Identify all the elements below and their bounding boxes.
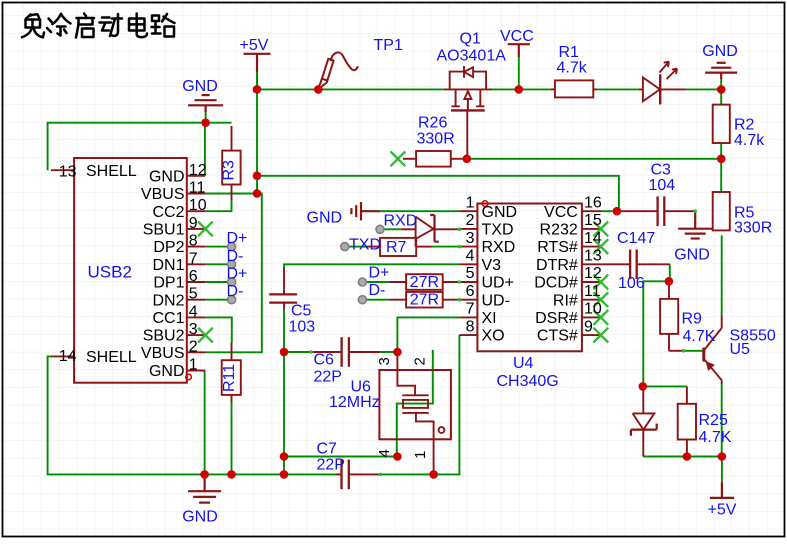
wire R2 bottom	[720, 143, 722, 159]
svg-text:6: 6	[466, 283, 475, 300]
wire GND top-left stem green part	[205, 112, 207, 123]
wire R7 right to pin3	[432, 246, 460, 248]
svg-text:4.7K: 4.7K	[699, 429, 732, 446]
power VCC	[508, 44, 530, 57]
svg-text:RXD: RXD	[384, 213, 418, 230]
ground GND top-right	[705, 63, 737, 79]
resistor R3	[231, 126, 233, 151]
svg-text:XO: XO	[482, 328, 505, 345]
wire CC1 pin4 to R11	[205, 317, 232, 342]
svg-text:4.7K: 4.7K	[683, 328, 716, 345]
svg-text:RTS#: RTS#	[537, 239, 578, 256]
ground GND sideways (U4 pin1)	[351, 202, 380, 220]
wire GND bottom stem green part	[204, 474, 206, 479]
port dots D+/D-/RXD/TXD	[228, 243, 236, 251]
title 免冷启动电路	[22, 14, 175, 38]
resistor R5	[713, 192, 730, 230]
wire Q1 drain to VCC node to R1	[492, 88, 551, 90]
U4 pin1 marker circle	[482, 201, 488, 207]
svg-text:2: 2	[466, 212, 475, 229]
wire GND top-right stem green part	[720, 79, 722, 89]
svg-text:D-: D-	[227, 248, 244, 265]
svg-text:10: 10	[189, 197, 207, 214]
svg-text:12: 12	[189, 162, 207, 179]
wire LED to GND node	[686, 88, 721, 90]
USB2 pin1 marker circle	[186, 374, 192, 380]
ground GND near C3	[678, 211, 712, 238]
svg-text:10: 10	[584, 301, 602, 318]
capacitor C6	[311, 351, 342, 353]
power +5V bottom	[710, 482, 734, 498]
wire diode node to R25 top	[643, 385, 687, 387]
svg-text:4: 4	[189, 303, 198, 320]
wire +5V top stem green part	[256, 72, 258, 89]
wire TXD port stub	[349, 246, 365, 248]
no-connect X RI# pin11	[593, 292, 608, 307]
svg-text:DP2: DP2	[153, 239, 184, 256]
svg-text:VBUS: VBUS	[141, 345, 185, 362]
wire RXD port stub	[384, 228, 402, 230]
wire D- port stub	[366, 299, 388, 301]
svg-text:UD+: UD+	[482, 275, 514, 292]
wire crystal pin2 case	[397, 350, 433, 457]
no-connect X DSR# pin10	[593, 310, 608, 325]
svg-text:103: 103	[289, 319, 316, 336]
svg-text:R2: R2	[734, 117, 755, 134]
svg-text:1: 1	[466, 194, 475, 211]
svg-text:C147: C147	[617, 230, 655, 247]
svg-text:11: 11	[584, 283, 601, 300]
svg-text:+5V: +5V	[708, 502, 737, 519]
svg-text:16: 16	[584, 194, 602, 211]
wire C6 right to XI node	[380, 351, 397, 353]
zener diode D3	[631, 386, 657, 456]
svg-text:3: 3	[466, 230, 475, 247]
svg-text:7: 7	[189, 250, 198, 267]
wire U4 pin16 to VCC node	[602, 210, 617, 212]
svg-text:D-: D-	[227, 283, 244, 300]
svg-text:GND: GND	[674, 247, 710, 264]
svg-text:GND: GND	[149, 168, 185, 185]
resistor R11	[231, 343, 233, 361]
wire R1 to LED	[597, 88, 639, 90]
no-connect X RTS# pin14	[593, 239, 608, 254]
pin-end green dots	[309, 209, 697, 476]
IC U4 CH340G body	[477, 204, 582, 352]
svg-text:22P: 22P	[314, 369, 342, 386]
svg-text:5: 5	[189, 286, 198, 303]
wire C6 left	[284, 351, 311, 353]
svg-text:R26: R26	[418, 115, 447, 132]
svg-text:8: 8	[189, 233, 198, 250]
wire R9 base row green part	[684, 350, 703, 352]
resistor R1	[551, 88, 555, 90]
no-connect X CTS# pin9	[593, 328, 608, 343]
svg-text:SBU2: SBU2	[143, 328, 185, 345]
resistor R2	[713, 105, 730, 143]
svg-text:R1: R1	[559, 44, 580, 61]
wire R26 node to R2/R5 node	[467, 158, 721, 160]
crystal U6 12MHz	[379, 370, 451, 439]
svg-text:DSR#: DSR#	[535, 310, 578, 327]
no-connect X DCD# pin12	[593, 275, 608, 290]
wire XO pin8 down and along bottom	[380, 335, 459, 474]
resistor R7	[365, 246, 380, 248]
svg-text:3: 3	[376, 357, 393, 365]
svg-text:V3: V3	[482, 257, 502, 274]
svg-text:D-: D-	[369, 282, 386, 299]
svg-text:SBU1: SBU1	[143, 222, 185, 239]
resistor R26	[403, 158, 416, 160]
wire R11 bottom down	[231, 401, 233, 474]
svg-text:14: 14	[584, 230, 602, 247]
wire USB GND pin1 down	[204, 371, 206, 475]
resistor R8 27R upper	[389, 281, 406, 283]
svg-text:DP1: DP1	[153, 275, 184, 292]
svg-text:TP1: TP1	[374, 37, 403, 54]
node junction dots	[253, 85, 262, 94]
wire C147 down to R9 node	[669, 264, 671, 281]
resistor R10 27R lower	[389, 299, 406, 301]
svg-text:27R: 27R	[410, 292, 439, 309]
svg-text:GND: GND	[182, 509, 218, 526]
test point TP1	[319, 52, 358, 88]
svg-text:R25: R25	[699, 412, 728, 429]
resistor R9	[668, 281, 670, 299]
svg-text:UD-: UD-	[482, 292, 510, 309]
connector USB2 body	[74, 158, 187, 383]
svg-text:VCC: VCC	[500, 28, 534, 45]
capacitor C7	[336, 473, 342, 475]
svg-text:R9: R9	[682, 311, 703, 328]
svg-text:CC1: CC1	[152, 310, 184, 327]
svg-text:6: 6	[189, 268, 198, 285]
capacitor C147	[602, 263, 631, 265]
svg-text:GND: GND	[482, 204, 518, 221]
svg-text:14: 14	[59, 348, 77, 365]
LED D2	[639, 62, 686, 105]
wire DP2 stub	[205, 246, 228, 248]
wire DN2 stub	[205, 299, 228, 301]
svg-text:Q1: Q1	[460, 31, 481, 48]
wire GND symbol to U4 pin1	[380, 210, 459, 212]
svg-text:U5: U5	[730, 341, 751, 358]
svg-text:C7: C7	[317, 441, 338, 458]
svg-text:7: 7	[466, 301, 475, 318]
svg-text:5: 5	[466, 265, 475, 282]
svg-text:DTR#: DTR#	[536, 257, 578, 274]
svg-text:106: 106	[618, 275, 645, 292]
svg-text:CC2: CC2	[152, 204, 184, 221]
svg-text:4: 4	[466, 248, 475, 265]
svg-text:2: 2	[189, 338, 198, 355]
svg-text:USB2: USB2	[88, 263, 132, 282]
wire Q1 gate to R26 node	[466, 110, 468, 158]
wire C5 bottom GND vertical	[283, 309, 285, 474]
svg-text:R232: R232	[540, 222, 578, 239]
wire DN1 stub	[205, 263, 228, 265]
svg-text:12MHz: 12MHz	[329, 394, 380, 411]
wire emitter to +5V	[721, 384, 723, 482]
svg-text:15: 15	[584, 212, 602, 229]
wire CC2 pin10 to R3	[205, 200, 231, 211]
svg-text:3: 3	[189, 321, 198, 338]
svg-text:TXD: TXD	[349, 237, 381, 254]
svg-text:4.7k: 4.7k	[734, 132, 765, 149]
svg-text:DN2: DN2	[152, 292, 184, 309]
svg-text:D+: D+	[369, 265, 390, 282]
svg-text:1: 1	[189, 357, 198, 374]
wire collector to R5	[721, 235, 723, 314]
svg-text:104: 104	[649, 177, 676, 194]
svg-text:C6: C6	[314, 352, 335, 369]
wire DP1 stub	[205, 281, 228, 283]
svg-text:9: 9	[189, 215, 198, 232]
wire VCC stem green part	[518, 57, 520, 89]
wire R5 top	[720, 159, 722, 192]
svg-text:GND: GND	[149, 363, 185, 380]
svg-text:R11: R11	[221, 364, 238, 392]
svg-text:9: 9	[584, 318, 593, 335]
svg-text:R7: R7	[386, 239, 407, 256]
no-connect X SBU1 pin9	[198, 222, 213, 237]
svg-text:GND: GND	[182, 78, 218, 95]
svg-text:CTS#: CTS#	[537, 328, 578, 345]
svg-text:R3: R3	[221, 160, 238, 181]
svg-text:VCC: VCC	[544, 204, 578, 221]
svg-text:4: 4	[376, 449, 393, 457]
wire R2 top	[720, 89, 722, 104]
transistor Q1 AO3401A pmos	[444, 66, 492, 110]
wire TP1 to Q1 source	[318, 88, 443, 90]
wire crystal case row	[284, 456, 397, 458]
wire +5V to TP1	[257, 88, 318, 90]
power +5V top	[244, 54, 271, 72]
svg-text:2: 2	[412, 357, 429, 365]
wire SHELL pin14 loop to bottom rail	[48, 356, 336, 474]
svg-text:330R: 330R	[417, 131, 455, 148]
no-connect X R232 pin15	[593, 222, 608, 237]
U4 pin stubs	[459, 211, 601, 335]
resistor R25	[686, 386, 688, 403]
wire R9 node left and down	[643, 281, 670, 386]
svg-text:1: 1	[412, 451, 429, 459]
wire GND top-left horizontal	[48, 123, 232, 171]
svg-text:13: 13	[59, 164, 77, 181]
svg-text:27R: 27R	[410, 274, 439, 291]
svg-text:D+: D+	[227, 230, 248, 247]
svg-text:C5: C5	[291, 303, 312, 320]
capacitor C5	[283, 268, 285, 295]
wire XI pin7 to crystal	[397, 317, 459, 352]
svg-text:DCD#: DCD#	[534, 275, 578, 292]
svg-text:8: 8	[466, 318, 475, 335]
no-connect X R26 left	[391, 151, 406, 166]
svg-text:SHELL: SHELL	[86, 163, 137, 180]
wire +5V rail to U4 VCC	[257, 176, 619, 211]
svg-text:SHELL: SHELL	[86, 349, 137, 366]
svg-text:U4: U4	[513, 355, 534, 372]
no-connect X SBU2 pin3	[198, 328, 213, 343]
svg-text:VBUS: VBUS	[141, 186, 185, 203]
svg-text:4.7k: 4.7k	[557, 60, 588, 77]
svg-text:RXD: RXD	[482, 239, 516, 256]
svg-text:XI: XI	[482, 310, 497, 327]
wire V3 pin4 to C5	[284, 264, 459, 267]
svg-text:GND: GND	[702, 43, 738, 60]
capacitor C3	[617, 210, 658, 212]
wire pin12 GND vertical	[204, 123, 206, 176]
svg-text:330R: 330R	[734, 220, 772, 237]
svg-text:D+: D+	[227, 266, 248, 283]
svg-text:AO3401A: AO3401A	[437, 48, 507, 65]
svg-text:C3: C3	[651, 162, 672, 179]
transistor U5 S8550	[704, 315, 722, 384]
ground GND top-left	[188, 95, 223, 112]
ground GND bottom-left	[188, 478, 221, 503]
svg-text:CH340G: CH340G	[497, 373, 559, 390]
svg-text:11: 11	[189, 180, 206, 197]
svg-text:U6: U6	[351, 379, 372, 396]
svg-text:+5V: +5V	[240, 37, 269, 54]
svg-text:DN1: DN1	[152, 257, 184, 274]
USB2 connector U-right pin stubs	[51, 170, 205, 370]
svg-text:GND: GND	[307, 210, 343, 227]
svg-text:12: 12	[584, 265, 602, 282]
diode D1 (RXD-TXD)	[402, 215, 459, 247]
wire bottom-right rail	[643, 456, 722, 458]
wire VBUS pin11 to pin2	[204, 194, 261, 353]
wire D+ port stub	[366, 281, 388, 283]
svg-text:TXD: TXD	[482, 222, 514, 239]
wire +5V rail vertical	[256, 72, 258, 194]
svg-text:13: 13	[584, 248, 602, 265]
svg-text:22P: 22P	[317, 457, 345, 474]
svg-text:RI#: RI#	[553, 292, 578, 309]
